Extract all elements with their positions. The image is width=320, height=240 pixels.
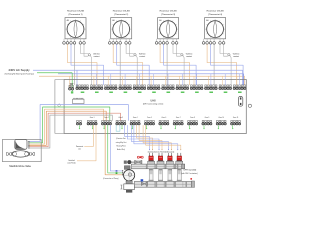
svg-text:Heatmiser DS-SB: Heatmiser DS-SB	[207, 10, 224, 13]
svg-text:UFH manifold: UFH manifold	[183, 169, 197, 171]
svg-text:(Live Feed): (Live Feed)	[68, 162, 76, 164]
svg-text:(Thermostat 3): (Thermostat 3)	[161, 13, 175, 16]
svg-text:contact: contact	[94, 55, 100, 58]
svg-text:230V AC Supply: 230V AC Supply	[8, 68, 30, 72]
svg-text:(Thermostat 1): (Thermostat 1)	[68, 13, 82, 16]
svg-text:Zone 11: Zone 11	[233, 117, 239, 119]
svg-text:UH8: UH8	[150, 98, 156, 102]
svg-text:Zone 9: Zone 9	[205, 117, 210, 119]
svg-text:Zone 2: Zone 2	[104, 117, 109, 119]
svg-text:Zone 3: Zone 3	[118, 117, 123, 119]
svg-text:Zone 6: Zone 6	[162, 117, 167, 119]
svg-text:(with 230 V actuators): (with 230 V actuators)	[181, 172, 198, 175]
svg-text:Live: Live	[78, 149, 81, 151]
svg-text:Zone 10: Zone 10	[218, 117, 224, 119]
svg-text:Zone 7: Zone 7	[176, 117, 181, 119]
svg-text:contact: contact	[233, 55, 239, 58]
svg-text:contact: contact	[139, 55, 145, 58]
svg-text:Heatmiser DS-SB: Heatmiser DS-SB	[160, 10, 177, 13]
svg-text:(Thermostat 2): (Thermostat 2)	[114, 13, 128, 16]
svg-text:Zone 4: Zone 4	[133, 117, 138, 119]
svg-text:Heatmiser DS-SB: Heatmiser DS-SB	[67, 10, 84, 13]
svg-text:Heatmiser DS-SB: Heatmiser DS-SB	[113, 10, 130, 13]
svg-text:Zone 8: Zone 8	[190, 117, 195, 119]
svg-text:(Thermostat 4): (Thermostat 4)	[208, 13, 222, 16]
svg-text:Zone 5: Zone 5	[147, 117, 152, 119]
svg-text:Manifold Zone Valve: Manifold Zone Valve	[9, 165, 31, 168]
svg-text:(Connections to Thermal Actuat: (Connections to Thermal Actuators)	[148, 150, 175, 153]
svg-text:contact: contact	[186, 55, 192, 58]
svg-text:(UH 8 zone wiring centre): (UH 8 zone wiring centre)	[143, 102, 164, 105]
svg-text:Zone 1: Zone 1	[90, 117, 95, 119]
